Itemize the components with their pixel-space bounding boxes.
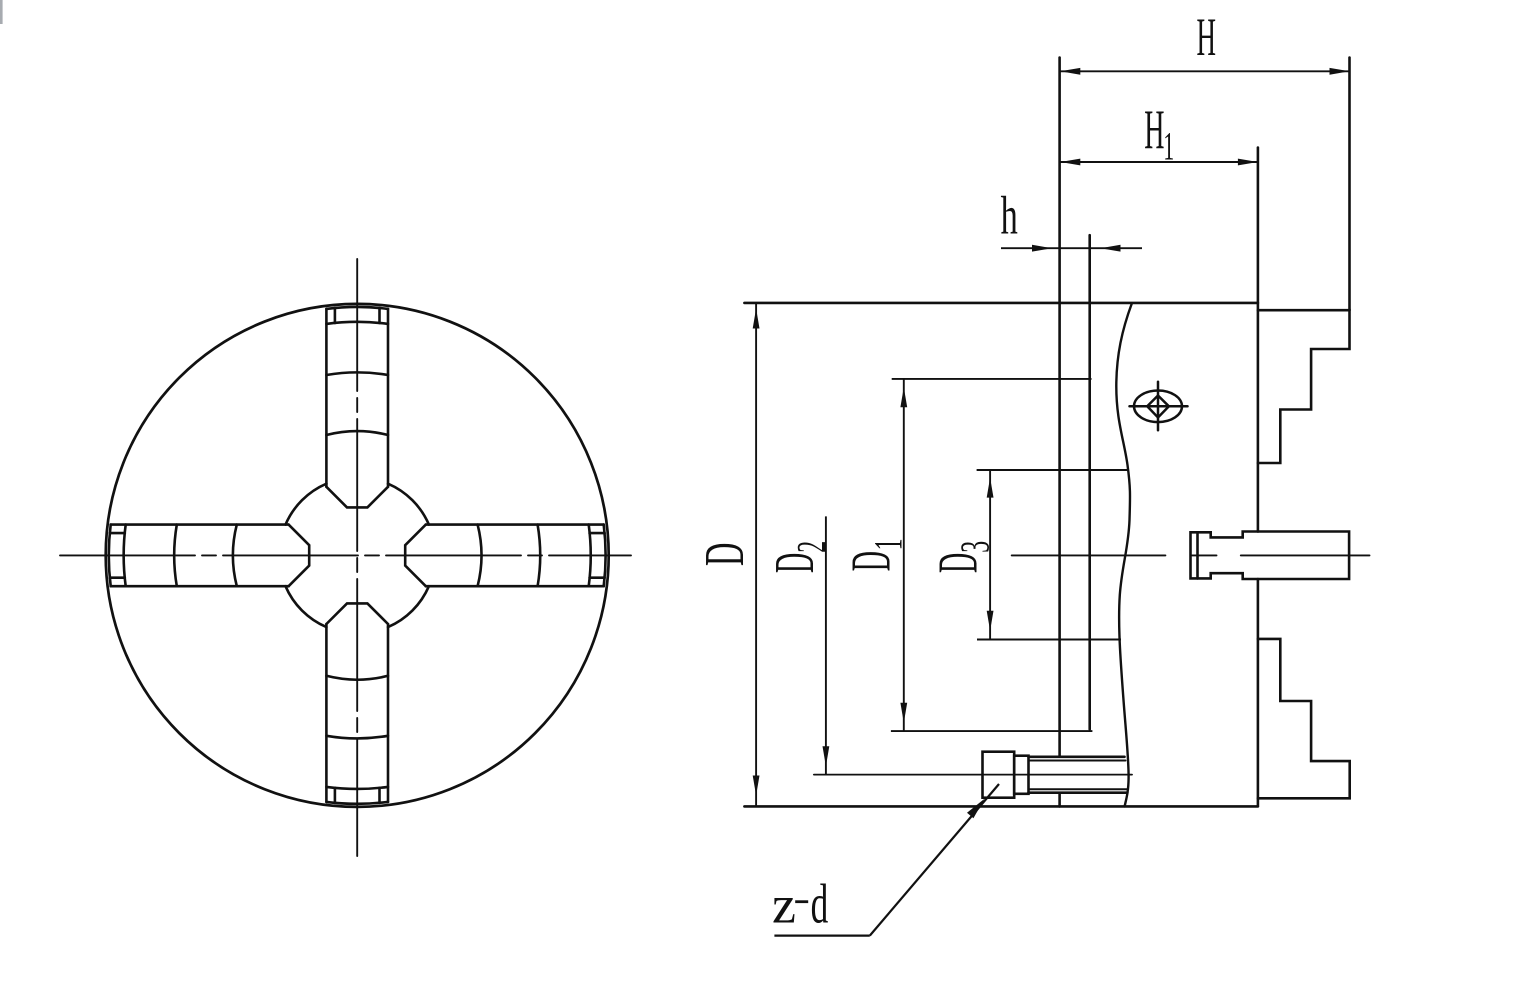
jaw cap slot line	[378, 308, 381, 323]
svg-text:2: 2	[790, 541, 835, 553]
svg-text:h: h	[1001, 185, 1018, 246]
side jaw boss cap line	[1196, 532, 1199, 578]
jaw step arc 1	[326, 736, 388, 739]
jaw chamfered tip	[326, 487, 388, 508]
svg-text:D: D	[840, 551, 902, 571]
jaw cap slot line	[378, 788, 381, 803]
chuck body outer circle	[106, 304, 609, 807]
jaw step arc 2	[326, 431, 388, 435]
svg-text:3: 3	[953, 541, 998, 553]
jaw side lines	[387, 624, 390, 802]
svg-text:D: D	[693, 543, 755, 566]
screw hole position symbol	[1130, 382, 1188, 431]
mounting bolt head	[983, 752, 1015, 798]
left jaw	[109, 525, 309, 587]
dimensions	[753, 68, 1350, 936]
svg-text:D: D	[927, 553, 989, 573]
jaw step arc 1	[326, 372, 388, 375]
jaw step arc 1	[538, 525, 541, 587]
dimension D1 line	[903, 379, 905, 731]
mounting bolt threaded shank	[1029, 755, 1125, 758]
jaw outer cap arc	[326, 802, 388, 804]
dimension H1	[1060, 161, 1258, 163]
leader z-d diagonal	[870, 784, 999, 936]
jaw cap inner arc	[124, 525, 126, 587]
svg-text:d: d	[811, 874, 829, 936]
front view: 4-jaw chuck, face	[60, 259, 631, 856]
jaw cap inner arc	[326, 787, 388, 789]
jaw step arc 2	[478, 525, 482, 587]
svg-text:z: z	[772, 875, 796, 934]
svg-text:D: D	[764, 553, 826, 573]
jaw cap inner arc	[589, 525, 591, 587]
side jaw boss outline	[1191, 532, 1350, 580]
jaw outer cap arc	[604, 525, 606, 587]
dimension h	[1001, 247, 1142, 249]
jaw chamfered tip	[405, 525, 426, 587]
recess depth line (h)	[1088, 235, 1091, 729]
side view horizontal centerline	[1012, 554, 1166, 556]
D3 extension lines	[977, 469, 1129, 471]
jaw outer cap arc	[326, 307, 388, 309]
jaw cap slot line	[334, 308, 337, 323]
svg-text:1: 1	[868, 538, 912, 550]
jaw side lines	[426, 523, 604, 526]
bolt centerline / D2 extension line	[814, 774, 1132, 776]
front view horizontal centerline	[60, 554, 631, 556]
right jaw	[405, 525, 605, 587]
bottom jaw	[326, 603, 388, 803]
mounting bolt neck	[1014, 756, 1028, 794]
jaw cap slot line	[590, 576, 605, 579]
top jaw profile (side view)	[1258, 310, 1350, 463]
scan artifact top-left	[0, 0, 3, 24]
svg-text:H: H	[1144, 99, 1164, 161]
jaw chamfered tip	[289, 525, 310, 587]
leader z-d underline	[774, 934, 869, 936]
D1 extension lines	[892, 378, 1092, 380]
bottom jaw profile (side view)	[1258, 639, 1350, 798]
body top edge	[744, 302, 1258, 305]
jaw cap slot line	[110, 576, 125, 579]
jaw cap slot line	[590, 532, 605, 535]
jaw step arc 2	[233, 525, 237, 587]
dimension H	[1060, 70, 1349, 72]
dimension D2 line	[825, 516, 827, 774]
front view vertical centerline	[356, 259, 358, 856]
central bore arcs	[286, 484, 429, 627]
H right extension line	[1348, 58, 1351, 311]
jaw chamfered tip	[326, 603, 388, 624]
dimension D3 line	[989, 470, 991, 640]
jaw step arc 1	[174, 525, 177, 587]
svg-text:1: 1	[1163, 124, 1174, 169]
body back face / H extension line	[1058, 58, 1061, 756]
jaw cap inner arc	[326, 322, 388, 324]
jaw cap slot line	[110, 532, 125, 535]
break (wavy) line	[1116, 304, 1132, 807]
jaw side lines	[111, 585, 289, 588]
body front face / H1 extension line	[1257, 148, 1260, 532]
top jaw	[326, 307, 388, 507]
jaw cap slot line	[334, 788, 337, 803]
label z-d dash	[795, 900, 808, 903]
body bottom edge	[744, 805, 1258, 808]
side view of chuck	[744, 58, 1369, 807]
dimension D	[755, 303, 757, 807]
jaw step arc 2	[326, 676, 388, 680]
svg-text:H: H	[1197, 8, 1216, 67]
jaw outer cap arc	[109, 525, 111, 587]
jaw side lines	[325, 309, 328, 487]
